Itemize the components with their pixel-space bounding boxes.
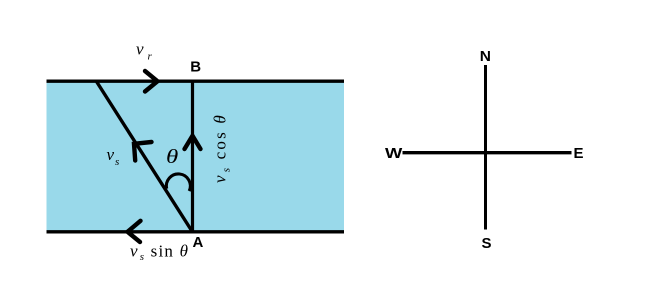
top bank line [47,79,345,82]
svg-text:N: N [480,48,491,65]
svg-text:B: B [190,58,201,75]
bottom bank line [47,230,345,233]
compass horizontal line W-E [403,151,572,154]
arrowhead right (river flow v_r) on top bank [145,71,158,92]
angle arc theta at A [166,174,190,191]
arrowhead left (v_s sin theta) on bottom bank [128,221,141,242]
svg-text:E: E [574,145,584,162]
river water [47,81,345,231]
svg-text:vr: vr [136,40,153,63]
compass vertical line N-S [484,65,487,230]
label theta [166,146,178,168]
wire diagonal swimmer path [97,82,193,233]
arrowhead on diagonal (v_s) [134,142,152,161]
svg-text:W: W [385,145,403,162]
svg-text:S: S [482,235,492,252]
svg-text:θ: θ [166,146,178,168]
arrowhead up (v_s cos theta) on vertical line [185,136,201,149]
svg-text:A: A [193,234,204,251]
svg-text:vs sin θ: vs sin θ [130,242,189,264]
wire vertical line A-B [191,81,194,234]
